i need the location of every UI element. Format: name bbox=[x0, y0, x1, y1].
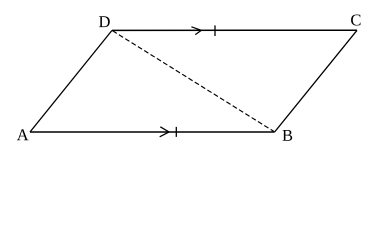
side DC (top) bbox=[112, 29, 357, 31]
tick mark on AB bbox=[175, 127, 177, 137]
label D bbox=[99, 16, 110, 27]
arrow chevron on DC bbox=[191, 27, 201, 35]
tick mark on DC bbox=[214, 25, 216, 36]
side BC (right) bbox=[275, 30, 357, 132]
label C bbox=[351, 14, 360, 25]
arrow chevron on AB bbox=[160, 127, 169, 137]
side AD (left) bbox=[30, 30, 112, 132]
side AB (bottom) bbox=[30, 131, 275, 133]
label A bbox=[17, 129, 29, 140]
label B bbox=[282, 130, 292, 141]
diagonal DB (dashed) bbox=[113, 31, 274, 132]
